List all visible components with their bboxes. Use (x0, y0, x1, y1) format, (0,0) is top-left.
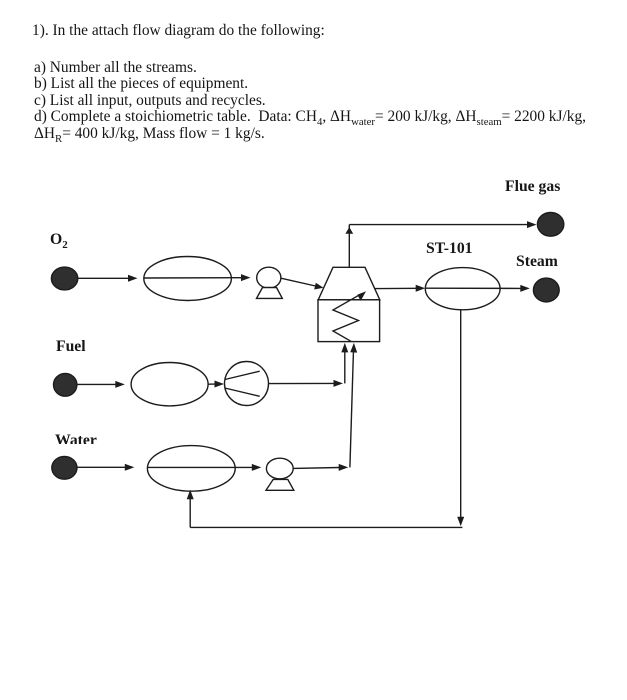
wire through E-102 to pump P-102 (147, 464, 261, 471)
wire through ST-101 to steam outlet (425, 285, 530, 292)
label O2 (50, 231, 68, 249)
furnace F-101 hood (trapezoid) (318, 267, 380, 300)
label Fuel (56, 338, 86, 356)
label ST-101 (426, 240, 473, 258)
label Water (55, 432, 97, 444)
wire through E-101 to pump P-101 (144, 274, 251, 281)
label Steam (516, 253, 558, 271)
compressor C-101 (fuel) (225, 362, 269, 406)
problem text items a-d (34, 60, 586, 142)
wire recycle up into water exchanger (187, 490, 194, 528)
pump P-101 (O2) (257, 267, 283, 298)
mixer vessel (fuel ellipse) (131, 363, 208, 406)
node steam outlet (533, 278, 559, 302)
wire pump P-101 to furnace (281, 278, 324, 289)
wire fuel riser into furnace (341, 343, 348, 384)
pump P-102 (water) (266, 458, 294, 490)
heat exchanger E-102 (water) (147, 446, 235, 492)
heat exchanger E-101 (O2 preheater) (144, 257, 232, 301)
label Flue gas (505, 178, 560, 196)
wire water riser into furnace (350, 343, 357, 468)
node fuel source (53, 373, 76, 396)
wire ST-101 blowdown down (457, 310, 464, 527)
furnace F-101 firebox (318, 300, 380, 342)
wire compressor to furnace junction (269, 380, 343, 387)
furnace coil zigzag with arrow (333, 291, 366, 341)
wire pump P-102 to water riser junction (293, 464, 348, 471)
wire furnace to steam drum ST-101 (374, 285, 425, 292)
steam drum ST-101 (425, 268, 500, 310)
wire recycle bottom horizontal (190, 526, 462, 528)
wire O2 source to exchanger E-101 (78, 275, 138, 282)
node flue gas outlet (537, 212, 563, 236)
flue gas wire to outlet (349, 221, 536, 228)
flue stack line up from furnace (345, 225, 353, 268)
node O2 source (51, 267, 77, 290)
wire mixer to compressor (208, 381, 224, 388)
node water source (52, 456, 77, 479)
problem text line 1 (32, 22, 325, 40)
wire fuel source to mixer (77, 381, 125, 388)
wire water source to exchanger E-102 (77, 464, 134, 471)
